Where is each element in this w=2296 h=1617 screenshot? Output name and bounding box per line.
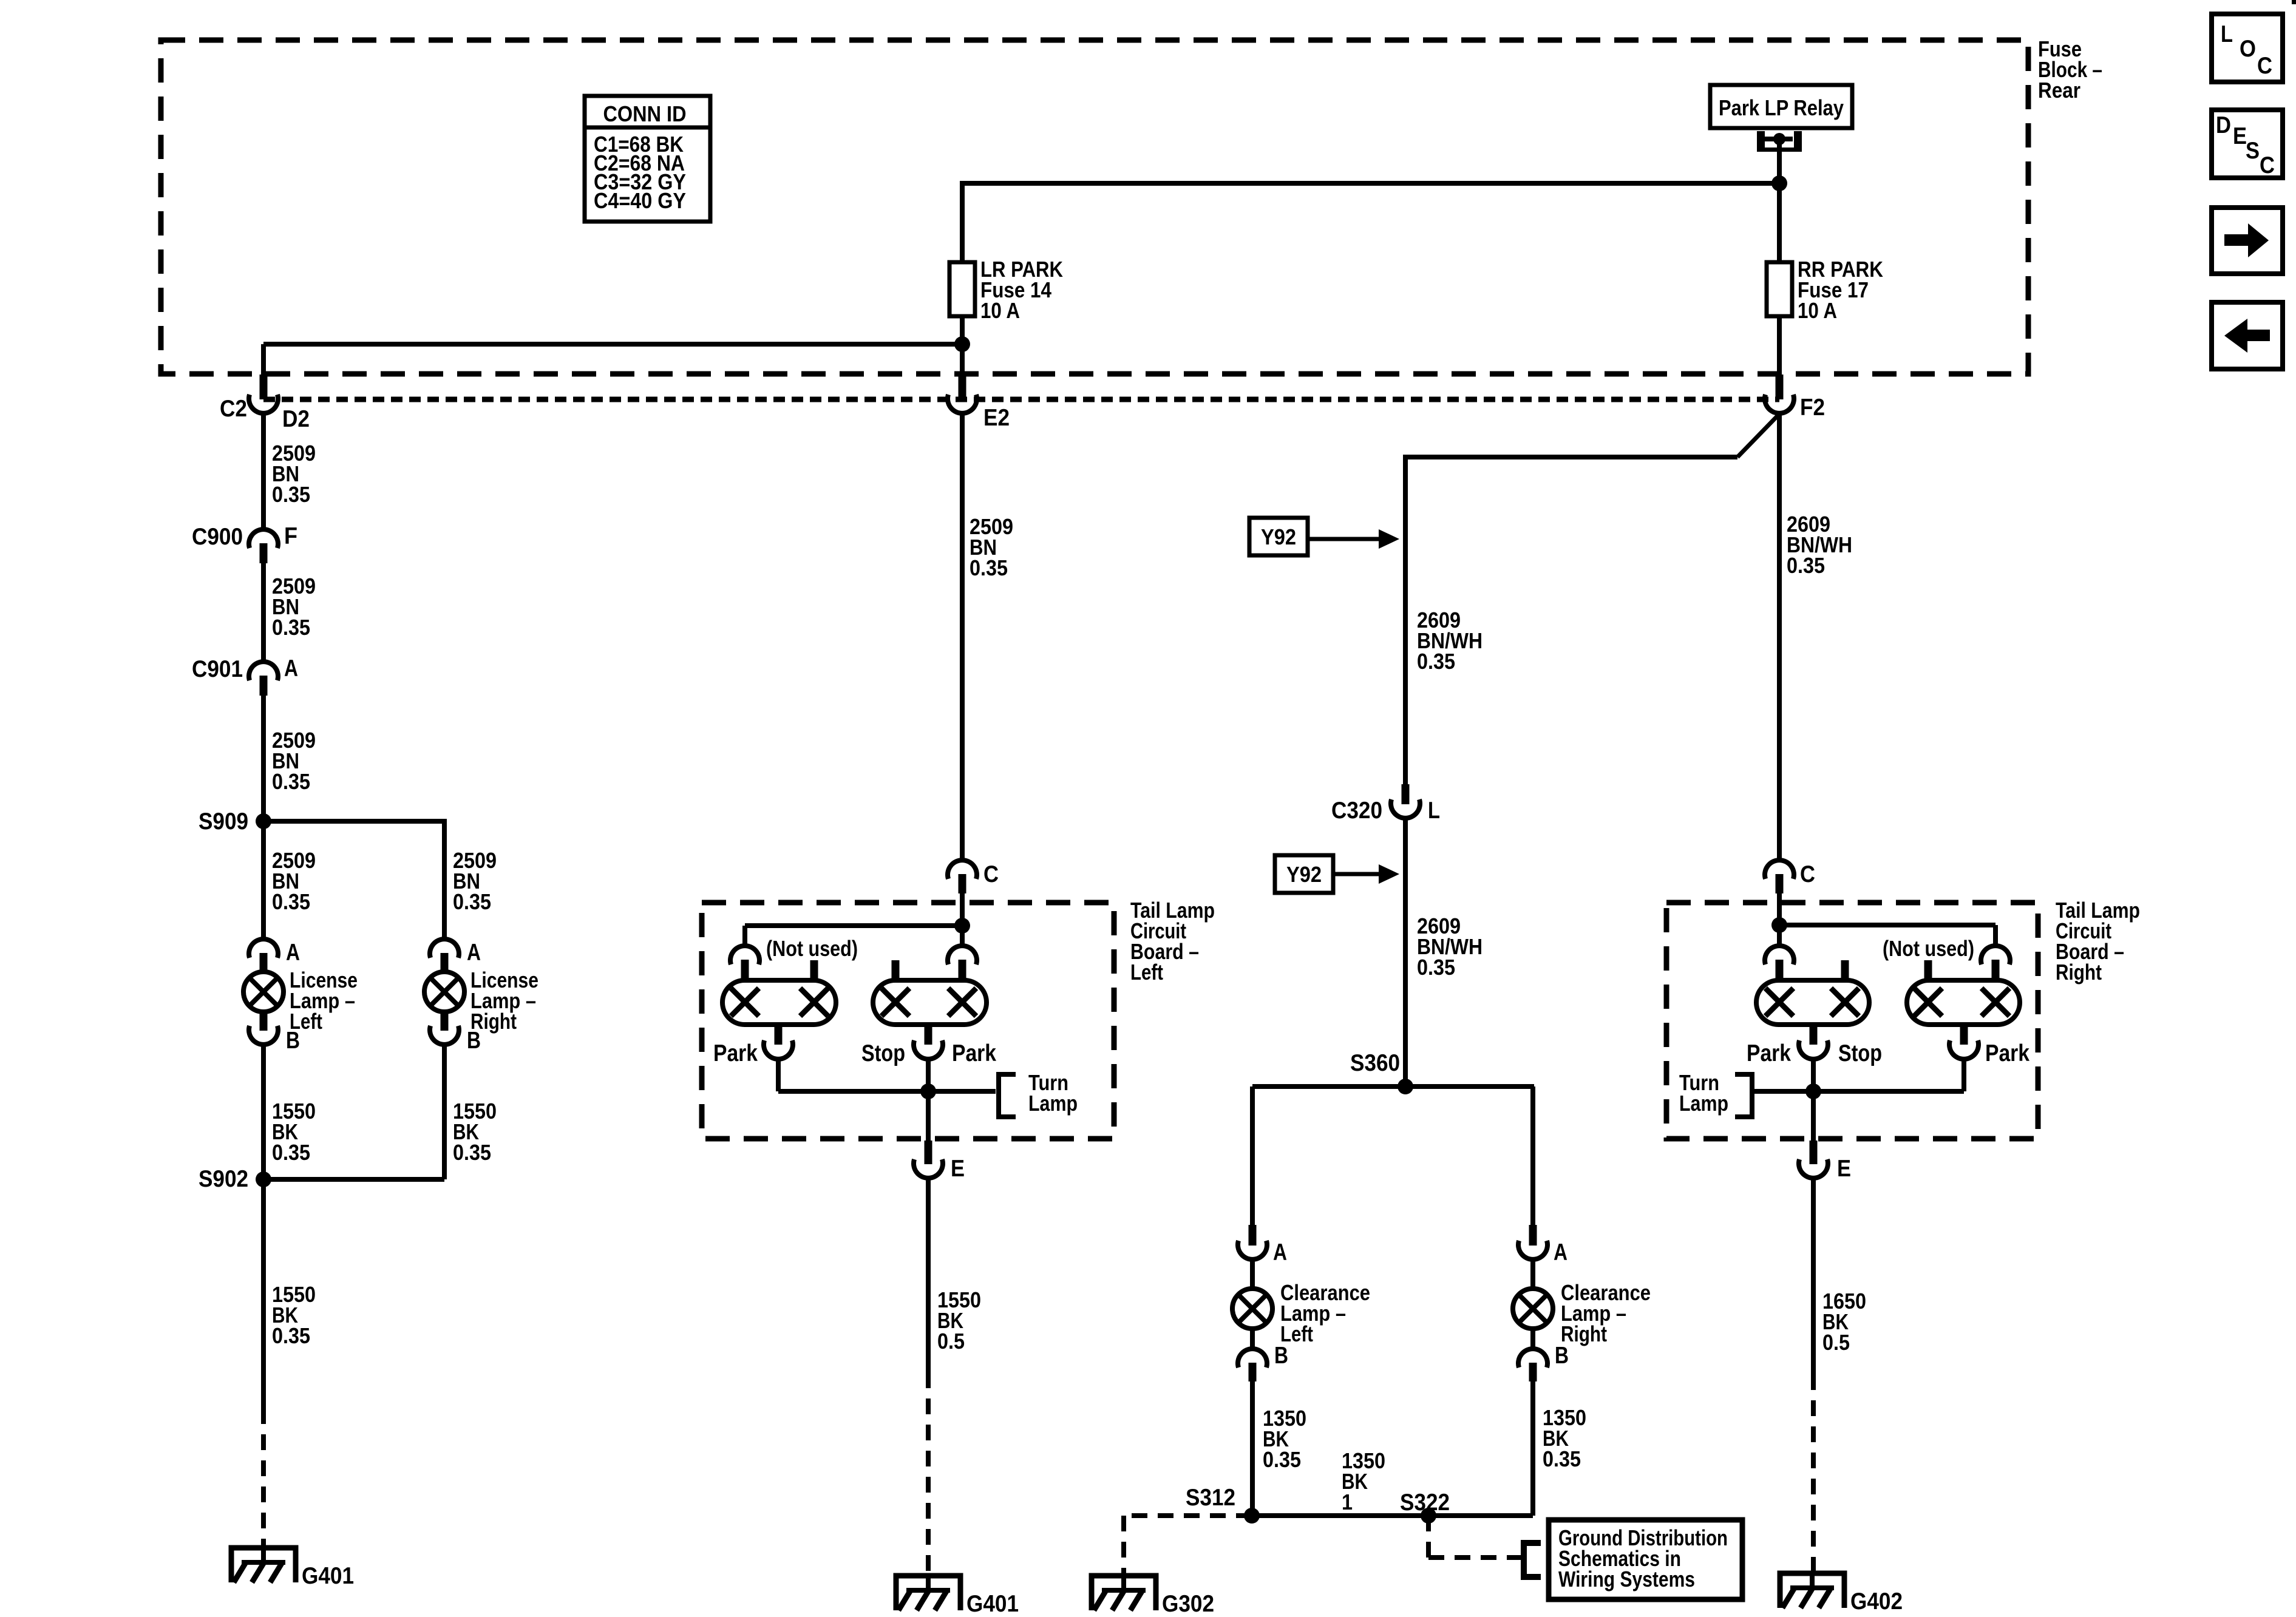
svg-text:Stop: Stop <box>1838 1040 1882 1066</box>
label: wire 1550 BK 0.35 (right) <box>453 1099 497 1165</box>
label: wire 2509 BN 0.35 (C900-C901) <box>272 574 316 640</box>
filament X marks (left bulb, right board) <box>1765 988 1859 1016</box>
filament X marks (left bulb, left board) <box>731 988 828 1016</box>
wire: drop to left bulb pin (right board) <box>1777 925 1782 945</box>
label: connector id list C1-C4 <box>594 132 686 213</box>
connector: right bulb top-right pin (left board) <box>948 946 977 980</box>
wire: board horizontal to not-used bulb (right) <box>1779 923 1995 927</box>
svg-text:Wiring Systems: Wiring Systems <box>1558 1567 1695 1592</box>
label: Fuse Block - Rear <box>2038 36 2102 103</box>
arrow from Y92 upper to wire <box>1308 529 1399 549</box>
svg-text:S902: S902 <box>199 1166 248 1192</box>
connector: stop/park pin below right bulb <box>914 1025 943 1059</box>
svg-text:(Not used): (Not used) <box>1883 936 1974 961</box>
svg-text:S: S <box>2246 138 2260 164</box>
node: junction at board bottom (left) <box>920 1083 936 1099</box>
wire: circuit 2509 C2 to C900 <box>261 414 266 529</box>
wire: S312 dashed to G302 <box>1124 1516 1252 1576</box>
svg-text:(Not used): (Not used) <box>766 936 858 961</box>
connector: right bulb top-right pin (right board) <box>1981 946 2010 980</box>
svg-text:G302: G302 <box>1162 1591 1214 1617</box>
label: wire 2509 BN 0.35 (right branch) <box>453 848 497 914</box>
connector C2 pin D2 <box>249 375 278 413</box>
svg-text:C4=40 GY: C4=40 GY <box>594 188 686 213</box>
wire: stop/park pin down to E <box>926 1060 931 1141</box>
connector pin A of clearance lamp Right <box>1518 1225 1547 1259</box>
svg-text:Stop: Stop <box>861 1040 905 1066</box>
svg-text:Left: Left <box>1130 960 1163 985</box>
svg-text:L: L <box>2221 21 2233 47</box>
label: wire 2509 BN 0.35 (E2-C) <box>970 514 1013 580</box>
svg-text:L: L <box>1428 798 1440 824</box>
wire: left clearance lamp to S312 <box>1250 1381 1255 1516</box>
connector: park pin below right bulb (right board) <box>1949 1025 1978 1059</box>
wire: E to G402 solid part <box>1811 1179 1816 1374</box>
wire: circuit 2609 down to C320 <box>1403 455 1408 784</box>
wire: board bottom horizontal to turn lamp (right) <box>1752 1089 1964 1094</box>
wire: drop to connector E2 <box>960 344 965 376</box>
svg-text:0.5: 0.5 <box>937 1329 965 1354</box>
svg-text:A: A <box>284 656 298 682</box>
svg-text:D2: D2 <box>282 406 310 432</box>
label: License Lamp - Right <box>470 968 538 1034</box>
svg-text:E2: E2 <box>983 405 1010 431</box>
Y92 reference box (lower) <box>1275 855 1333 893</box>
connector C900 pin F <box>249 529 278 563</box>
label: Tail Lamp Circuit Board - Left <box>1130 898 1215 985</box>
nav button: forward arrow <box>2212 208 2283 274</box>
svg-text:0.35: 0.35 <box>272 1140 310 1165</box>
node: junction below LR PARK fuse <box>954 336 970 352</box>
wire: drop to connector C2 <box>261 344 266 376</box>
ground G402 <box>1780 1571 1844 1608</box>
connector pin A of clearance lamp Left <box>1238 1225 1267 1259</box>
connector pin C (left board) <box>948 860 977 893</box>
svg-text:A: A <box>467 940 481 966</box>
svg-text:A: A <box>1273 1239 1287 1266</box>
turn lamp bracket (left board) <box>999 1074 1016 1117</box>
wire: board horizontal to not-used bulb <box>745 923 962 928</box>
label: RR PARK Fuse 17 10 A <box>1798 257 1883 323</box>
label: wire 2609 BN/WH 0.35 (lower) <box>1417 914 1483 980</box>
connector pin E (right board) <box>1799 1141 1828 1178</box>
turn lamp bracket (right board) <box>1735 1074 1752 1117</box>
wire: S902 to G401 solid part <box>261 1179 266 1408</box>
wire: S909 branch to right lamp <box>263 819 444 938</box>
connector pin F2 <box>1765 375 1794 413</box>
wire: board bottom horizontal to turn lamp <box>778 1089 996 1094</box>
wire: S909 down to left license lamp <box>261 821 266 938</box>
svg-text:S360: S360 <box>1350 1050 1400 1076</box>
wire: circuit 2609 F2 to tail lamp board right <box>1777 414 1782 859</box>
connector: left bulb top-left pin (right board) <box>1765 946 1794 980</box>
svg-text:Rear: Rear <box>2038 78 2080 103</box>
label: LR PARK Fuse 14 10 A <box>980 257 1063 323</box>
wire: S360 to left clearance lamp <box>1250 1086 1255 1225</box>
wire: circuit 2509 C901 to S909 <box>261 696 266 821</box>
svg-text:0.35: 0.35 <box>272 889 310 914</box>
wire: E to G402 dashed part <box>1811 1374 1816 1573</box>
wire: drop to left bulb pin <box>742 926 747 945</box>
svg-text:B: B <box>1274 1343 1288 1369</box>
svg-text:0.35: 0.35 <box>970 555 1008 580</box>
node: splice S360 <box>1398 1079 1413 1094</box>
label: Turn Lamp (left board) <box>1028 1070 1078 1116</box>
connector C320 pin L <box>1391 784 1420 818</box>
wire: circuit 2509 E2 to tail lamp board left <box>960 414 965 859</box>
svg-text:Y92: Y92 <box>1261 524 1296 549</box>
label: Clearance Lamp - Left <box>1280 1280 1370 1346</box>
filament X marks (right bulb, right board) <box>1914 988 2009 1016</box>
nav button: back arrow <box>2212 302 2283 369</box>
svg-text:Y92: Y92 <box>1286 862 1322 887</box>
wire: park pin down (right board) <box>1961 1060 1966 1091</box>
wire: circuit 2509 C900 to C901 <box>261 563 266 661</box>
svg-text:C: C <box>2260 152 2275 178</box>
wire: down to LR PARK fuse <box>960 181 965 262</box>
svg-text:10 A: 10 A <box>1798 298 1837 323</box>
label: wire 1350 BK 0.35 (right) <box>1543 1405 1586 1471</box>
wire: C320 to S360 <box>1403 819 1408 1086</box>
label: wire 2609 BN/WH 0.35 (F2-C) <box>1787 512 1852 578</box>
wire: relay feed horizontal <box>962 181 1779 186</box>
connector pin B of license lamp left <box>249 1012 278 1045</box>
label: wire 1350 BK 0.35 (left) <box>1263 1406 1306 1472</box>
ground G302 <box>1092 1573 1156 1610</box>
relay output pin symbol <box>1757 131 1802 183</box>
svg-text:C: C <box>983 861 999 887</box>
svg-text:Park: Park <box>1747 1040 1791 1066</box>
node: splice S322 <box>1421 1508 1436 1524</box>
wire: RR fuse drop to connector F2 <box>1777 316 1782 376</box>
pin stub unused (left bulb right pin) <box>810 960 818 980</box>
node: splice S909 <box>256 813 271 829</box>
node: junction inside left board <box>954 918 970 934</box>
lamp E: Clearance Lamp - Right <box>1513 1289 1553 1329</box>
svg-text:D: D <box>2216 112 2231 138</box>
wire: S360 to right clearance lamp <box>1530 1086 1535 1225</box>
nav button: LOC <box>2212 14 2283 82</box>
fuse F14: LR PARK fuse body <box>949 262 975 316</box>
label: wire 2509 BN 0.35 (C901-S909) <box>272 728 316 794</box>
wire: E to G401 dashed part <box>926 1372 931 1578</box>
svg-text:E: E <box>2233 123 2247 149</box>
wire: S902 to G401 dashed part <box>261 1408 266 1548</box>
svg-text:0.35: 0.35 <box>453 889 491 914</box>
svg-text:S312: S312 <box>1186 1485 1235 1511</box>
wire: S322 dashed to ground distribution note <box>1428 1516 1523 1558</box>
relay K: Park LP Relay box <box>1710 85 1852 128</box>
wire: A to lamp (Left) <box>1250 1259 1255 1290</box>
fuse F17: RR PARK fuse body <box>1767 262 1792 316</box>
bulb: dual filament stop/park left board <box>873 980 987 1025</box>
nav button: DESC <box>2212 110 2283 178</box>
connector: stop/park pin below left bulb (right board) <box>1799 1025 1828 1059</box>
wire: horizontal to C2 drop <box>263 342 962 347</box>
label: wire 2509 BN 0.35 (C2-C900) <box>272 441 316 507</box>
svg-text:B: B <box>286 1028 300 1054</box>
svg-text:CONN ID: CONN ID <box>603 101 687 126</box>
connector pin E2 <box>948 375 977 413</box>
svg-text:E: E <box>1837 1156 1851 1182</box>
svg-text:C900: C900 <box>192 524 243 550</box>
label: wire 1550 BK 0.35 (S902-G401) <box>272 1282 316 1348</box>
fuse block - rear dashed outline box <box>161 40 2028 374</box>
label: wire 1350 BK 1 <box>1342 1448 1385 1514</box>
svg-text:Park: Park <box>952 1040 996 1066</box>
wire: S902 branch horizontal <box>263 1177 444 1182</box>
connector pin B of license lamp right <box>430 1012 459 1045</box>
label: Turn Lamp (right board) <box>1679 1070 1728 1116</box>
node: splice S312 <box>1244 1508 1260 1524</box>
svg-text:0.35: 0.35 <box>1263 1447 1301 1472</box>
connector harness dotted line C2-F2 <box>263 397 1779 402</box>
label: Ground Distribution Schematics in Wiring Systems <box>1558 1525 1728 1592</box>
note box: Ground Distribution Schematics in Wiring Systems <box>1549 1520 1742 1599</box>
tail lamp circuit board right dashed box <box>1666 903 2038 1139</box>
lamp E: License Lamp - Right <box>424 972 464 1012</box>
svg-text:C901: C901 <box>192 656 243 682</box>
svg-text:C: C <box>2257 53 2272 79</box>
label: wire 2609 BN/WH 0.35 (upper) <box>1417 608 1483 674</box>
svg-text:0.5: 0.5 <box>1822 1330 1850 1355</box>
svg-text:1: 1 <box>1342 1490 1353 1514</box>
wire: lamp to B (Left) <box>1250 1327 1255 1349</box>
wire: S360 branch horizontal <box>1252 1084 1534 1089</box>
svg-text:Park: Park <box>713 1040 758 1066</box>
label: wire 2509 BN 0.35 (left branch) <box>272 848 316 914</box>
label: wire 1550 BK 0.35 (left) <box>272 1099 316 1165</box>
wire: pin C into right board <box>1777 893 1782 928</box>
svg-text:Right: Right <box>2056 960 2102 985</box>
connector pin B of clearance lamp Right <box>1518 1349 1547 1381</box>
svg-text:C: C <box>1800 861 1815 887</box>
wire: circuit 1550 lamp right to S902 <box>442 1045 447 1179</box>
wire: park pin down <box>776 1060 781 1091</box>
svg-text:G401: G401 <box>302 1563 354 1589</box>
pin stub unused (right bulb left pin, right board) <box>1924 960 1932 980</box>
svg-text:F2: F2 <box>1800 395 1825 421</box>
CONN ID table box <box>585 96 710 222</box>
label: wire 1650 BK 0.5 <box>1822 1289 1866 1355</box>
svg-text:0.35: 0.35 <box>1417 955 1455 980</box>
svg-text:B: B <box>467 1028 481 1054</box>
svg-text:Lamp: Lamp <box>1028 1091 1078 1116</box>
wire: A to lamp (Right) <box>1530 1259 1535 1290</box>
svg-text:0.35: 0.35 <box>1787 553 1825 578</box>
connector pin C (right board) <box>1765 860 1794 893</box>
bulb: dual filament (not used) left board <box>722 980 836 1025</box>
wire: E to G401 solid part <box>926 1179 931 1372</box>
connector: park pin below left bulb <box>764 1025 793 1059</box>
tail lamp circuit board left dashed box <box>702 903 1114 1139</box>
svg-text:Park: Park <box>1985 1040 2029 1066</box>
label: License Lamp - Left <box>290 968 358 1034</box>
svg-text:C320: C320 <box>1331 798 1382 824</box>
wire: F2 branch horizontal to Y92 drop <box>1405 455 1737 459</box>
ground G401 (tail lamp board left) <box>896 1573 960 1610</box>
bulb: dual filament stop/park right board <box>1756 980 1869 1025</box>
svg-text:Park LP Relay: Park LP Relay <box>1719 95 1844 120</box>
svg-text:S909: S909 <box>199 808 248 835</box>
pin stub unused (left bulb right pin, right board) <box>1841 960 1849 980</box>
connector pin A of license lamp left <box>249 939 278 972</box>
wire: stop/park pin down to E (right board) <box>1811 1060 1816 1141</box>
svg-text:0.35: 0.35 <box>272 615 310 640</box>
svg-text:B: B <box>1555 1343 1569 1369</box>
page corner tick <box>2292 0 2296 4</box>
wire: diagonal from F2 <box>1737 415 1778 457</box>
svg-text:C2: C2 <box>220 396 247 422</box>
svg-text:S322: S322 <box>1400 1490 1450 1516</box>
lamp E: Clearance Lamp - Left <box>1232 1289 1272 1329</box>
svg-text:Lamp: Lamp <box>1679 1091 1728 1116</box>
label: wire 1550 BK 0.5 <box>937 1287 981 1354</box>
wire: pin C into board <box>960 893 965 928</box>
wire: lamp to B (Right) <box>1530 1327 1535 1349</box>
filament X marks (right bulb, left board) <box>881 988 976 1016</box>
svg-text:0.35: 0.35 <box>1543 1446 1581 1471</box>
arrow from Y92 lower to wire <box>1333 864 1399 884</box>
connector: left bulb top-left pin (left board) <box>730 946 759 980</box>
svg-text:A: A <box>1554 1239 1567 1266</box>
lamp E: License Lamp - Left <box>243 972 284 1012</box>
svg-text:O: O <box>2240 36 2256 62</box>
connector pin A of license lamp right <box>430 939 459 972</box>
wire: circuit 1550 lamp left to S902 <box>261 1045 266 1179</box>
svg-text:A: A <box>286 940 300 966</box>
node: junction at board bottom (right) <box>1805 1083 1821 1099</box>
bulb: dual filament (not used) right board <box>1907 980 2020 1025</box>
svg-text:0.35: 0.35 <box>272 1323 310 1348</box>
Y92 reference box (upper) <box>1249 518 1308 555</box>
label: Clearance Lamp - Right <box>1561 1280 1651 1346</box>
wire: LR fuse to distribution node <box>960 316 965 344</box>
wire: right clearance lamp down <box>1530 1381 1535 1516</box>
svg-text:0.35: 0.35 <box>453 1140 491 1165</box>
bracket to ground distribution note <box>1524 1543 1541 1577</box>
svg-text:F: F <box>284 523 297 549</box>
connector pin E (left board) <box>914 1141 943 1178</box>
node: junction at relay feed / RR PARK <box>1771 175 1787 191</box>
svg-text:10 A: 10 A <box>980 298 1020 323</box>
wire: down to RR PARK fuse <box>1777 183 1782 262</box>
ground G401 (license lamps) <box>231 1545 296 1582</box>
node: junction inside right board <box>1771 917 1787 933</box>
connector pin B of clearance lamp Left <box>1238 1349 1267 1381</box>
wire: drop to right bulb pin (right board) <box>1993 925 1998 945</box>
pin stub unused (right bulb left pin) <box>892 960 900 980</box>
wire: ground bus S312-S322 <box>1252 1513 1533 1518</box>
label: Tail Lamp Circuit Board - Right <box>2056 898 2140 985</box>
svg-text:0.35: 0.35 <box>272 769 310 794</box>
svg-text:G402: G402 <box>1850 1588 1903 1615</box>
node: splice S902 <box>256 1171 271 1187</box>
connector C901 pin A <box>249 662 278 696</box>
wire: drop to right bulb pin <box>960 926 965 945</box>
svg-text:0.35: 0.35 <box>272 482 310 507</box>
svg-text:0.35: 0.35 <box>1417 649 1455 674</box>
svg-text:E: E <box>951 1156 965 1182</box>
svg-text:G401: G401 <box>966 1591 1019 1617</box>
